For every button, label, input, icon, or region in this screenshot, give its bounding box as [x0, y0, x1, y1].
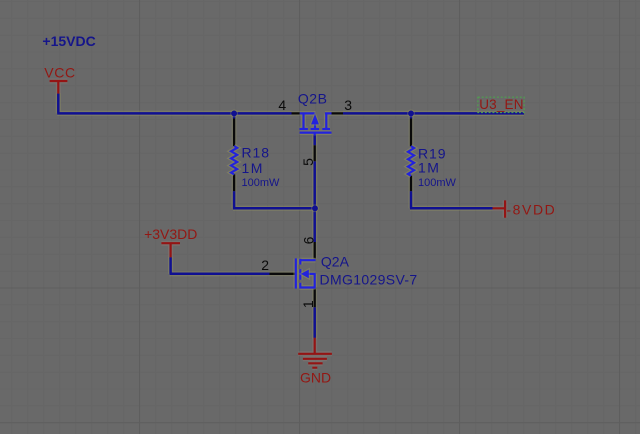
svg-text:1M: 1M: [242, 160, 264, 176]
svg-text:1: 1: [300, 300, 316, 308]
svg-text:+3V3DD: +3V3DD: [144, 226, 197, 242]
svg-text:100mW: 100mW: [418, 177, 457, 189]
svg-text:R18: R18: [242, 144, 270, 160]
svg-text:5: 5: [300, 158, 316, 166]
svg-text:Q2B: Q2B: [298, 91, 328, 107]
svg-text:DMG1029SV-7: DMG1029SV-7: [320, 271, 418, 287]
svg-text:6: 6: [300, 236, 316, 244]
svg-text:100mW: 100mW: [242, 177, 281, 189]
svg-text:Q2A: Q2A: [321, 254, 350, 270]
svg-text:+15VDC: +15VDC: [42, 33, 95, 49]
svg-text:GND: GND: [300, 370, 331, 386]
svg-text:4: 4: [278, 97, 286, 113]
svg-text:3: 3: [344, 97, 352, 113]
svg-text:2: 2: [261, 257, 269, 273]
svg-text:1M: 1M: [418, 159, 440, 175]
svg-text:VCC: VCC: [44, 65, 75, 81]
svg-text:U3_EN: U3_EN: [479, 97, 524, 112]
svg-text:-8VDD: -8VDD: [506, 202, 556, 218]
